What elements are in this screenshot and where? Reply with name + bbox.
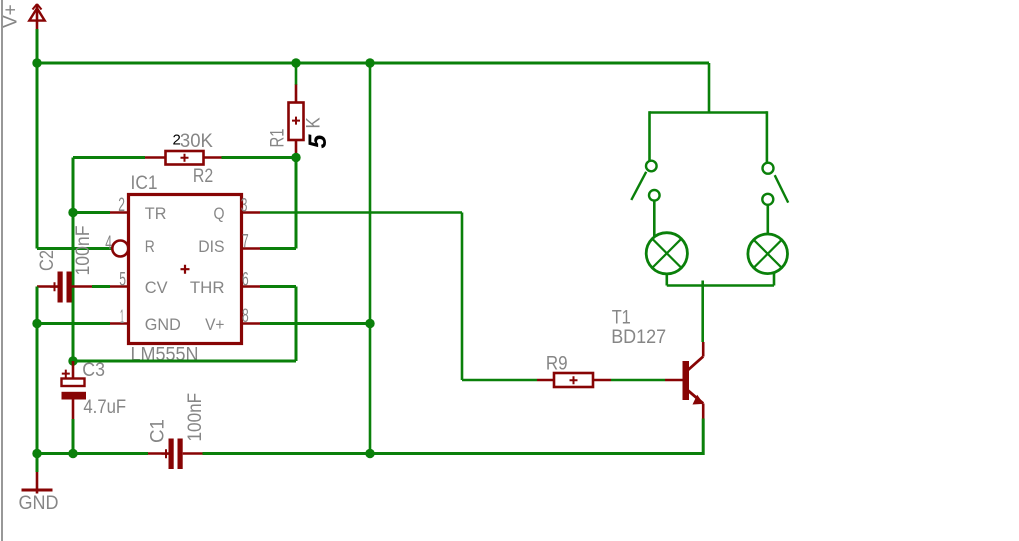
- svg-text:3: 3: [241, 196, 248, 217]
- wire left column down: [72, 213, 75, 362]
- wire junction to pin TR: [73, 211, 110, 214]
- label R9: [546, 353, 568, 374]
- pin number 3: [241, 196, 248, 217]
- node V+ rail left: [32, 58, 41, 67]
- wire ground rail right: [203, 452, 704, 455]
- wire C3 to ground rail: [72, 419, 75, 454]
- wire R2 right to R1 bottom: [222, 156, 297, 159]
- IC origin cross: [181, 265, 190, 274]
- svg-text:4: 4: [105, 233, 112, 254]
- pin number 5: [119, 270, 126, 291]
- node THR C3: [68, 356, 77, 365]
- node ground rail: [32, 449, 41, 458]
- label GND: [19, 493, 59, 514]
- node TR junction: [68, 208, 77, 217]
- wire pin8 to V+ column: [260, 322, 370, 325]
- wire V+ to top rail: [36, 29, 39, 63]
- svg-text:5: 5: [119, 270, 126, 291]
- svg-text:R1: R1: [268, 129, 289, 148]
- svg-text:C2: C2: [37, 250, 58, 271]
- wire lamps to collector: [701, 281, 704, 343]
- pin name CV: [145, 278, 168, 297]
- wire lamps common: [667, 284, 774, 287]
- node V+ column: [365, 58, 374, 67]
- svg-text:V+: V+: [1, 4, 22, 28]
- value 5K: [304, 117, 333, 148]
- wire R2 left down: [73, 158, 145, 213]
- value 100nF C2: [73, 226, 94, 276]
- ground symbol: [22, 472, 53, 494]
- pin name THR: [190, 278, 225, 297]
- label IC1: [131, 173, 158, 194]
- value 100nF C1: [185, 393, 206, 442]
- wire THR loop: [73, 287, 296, 362]
- pin number 1: [120, 307, 124, 328]
- lamp LP2: [748, 234, 788, 274]
- svg-text:7: 7: [242, 232, 249, 253]
- svg-text:IC1: IC1: [131, 173, 158, 194]
- svg-text:C1: C1: [148, 419, 169, 443]
- capacitor C3: [62, 361, 87, 419]
- wire R1 top: [295, 63, 298, 85]
- svg-text:DIS: DIS: [198, 237, 224, 256]
- svg-text:R9: R9: [546, 353, 568, 374]
- svg-text:100nF: 100nF: [185, 393, 206, 442]
- wire GND symbol lead: [36, 454, 39, 473]
- pin number 2: [118, 195, 125, 216]
- wire switch S1 to lamp LP1: [653, 201, 656, 237]
- svg-text:C3: C3: [82, 360, 105, 381]
- wire ground rail left: [37, 452, 148, 455]
- svg-text:R2: R2: [193, 166, 213, 187]
- lamp LP1: [646, 233, 687, 274]
- wire Q output: [260, 213, 537, 381]
- wire GND pin1: [37, 322, 110, 325]
- svg-text:4.7uF: 4.7uF: [83, 397, 126, 418]
- switch S2: [762, 163, 788, 205]
- capacitor C1: [148, 439, 203, 470]
- switch S1: [631, 161, 659, 201]
- label C1: [148, 419, 169, 443]
- resistor R1: [289, 85, 304, 158]
- pin number 8: [242, 306, 249, 327]
- svg-text:R: R: [145, 237, 155, 256]
- svg-text:Q: Q: [214, 204, 225, 223]
- node pin8: [365, 319, 374, 328]
- node C3 bottom: [68, 449, 77, 458]
- svg-text:CV: CV: [145, 278, 168, 297]
- svg-text:6: 6: [242, 270, 249, 291]
- svg-text:100nF: 100nF: [73, 226, 94, 276]
- node R1 bottom: [291, 153, 300, 162]
- svg-text:30K: 30K: [180, 131, 213, 152]
- value BD127: [611, 327, 666, 348]
- resistor R2: [145, 151, 222, 165]
- wire top rail to switches: [650, 63, 767, 113]
- wire to switch S2: [766, 111, 769, 162]
- svg-text:8: 8: [242, 306, 249, 327]
- wire to switch S1: [648, 111, 651, 160]
- transistor T1: [665, 342, 704, 419]
- pin 8 V+ stub: [242, 322, 261, 325]
- capacitor C2: [37, 272, 92, 303]
- wire DIS to R1 bottom: [260, 158, 296, 249]
- pin name TR: [145, 204, 167, 223]
- wire V+ rail down to reset: [36, 63, 39, 249]
- pin 5 CV stub: [110, 285, 129, 288]
- svg-text:THR: THR: [190, 278, 225, 297]
- wire lamp LP2 bottom: [773, 272, 776, 286]
- wire V+ column: [369, 63, 372, 454]
- wire to pin R: [37, 247, 112, 250]
- pin name DIS: [198, 237, 224, 256]
- wire top rail: [36, 62, 710, 65]
- label R2: [193, 166, 213, 187]
- resistor R9: [537, 373, 611, 387]
- svg-text:V+: V+: [205, 315, 224, 334]
- label R1: [268, 129, 289, 148]
- pin name R: [145, 237, 155, 256]
- pin name GND: [145, 315, 181, 334]
- wire R9 to base: [611, 379, 665, 382]
- svg-text:5: 5: [304, 134, 332, 149]
- wire C2 to pin5: [92, 285, 110, 288]
- svg-text:1: 1: [120, 307, 124, 328]
- node C1 V+ column: [365, 449, 374, 458]
- frame border line: [1, 0, 3, 541]
- pin name V+: [205, 315, 224, 334]
- pin 2 TR stub: [110, 211, 129, 214]
- value LM555N: [131, 345, 199, 366]
- wire emitter to ground rail: [702, 419, 705, 456]
- svg-text:K: K: [304, 117, 325, 128]
- svg-text:GND: GND: [19, 493, 59, 514]
- pin 6 THR stub: [242, 285, 261, 288]
- pin number 6: [242, 270, 249, 291]
- label T1: [612, 308, 631, 329]
- svg-text:GND: GND: [145, 315, 181, 334]
- wire C2 left down: [36, 287, 39, 454]
- label C3: [82, 360, 105, 381]
- wire lamp LP1 bottom: [665, 274, 668, 286]
- wire switch S2 to lamp LP2: [766, 205, 769, 235]
- supply symbol V+: [29, 4, 44, 29]
- pin 1 GND stub: [110, 322, 129, 325]
- pin number 4: [105, 233, 112, 254]
- pin name Q: [214, 204, 225, 223]
- label V+: [1, 4, 22, 28]
- pin 3 Q stub: [242, 211, 261, 214]
- value 4.7uF: [83, 397, 126, 418]
- svg-text:TR: TR: [145, 204, 167, 223]
- value 230K: [173, 131, 214, 152]
- pin 4 R bubble: [112, 241, 128, 257]
- label C2: [37, 250, 58, 271]
- node pin1 junction: [32, 319, 41, 328]
- svg-text:2: 2: [118, 195, 125, 216]
- pin 7 DIS stub: [242, 247, 261, 250]
- svg-text:BD127: BD127: [611, 327, 666, 348]
- pin number 7: [242, 232, 249, 253]
- svg-text:T1: T1: [612, 308, 631, 329]
- node R1 top: [291, 58, 300, 67]
- IC U1 body: [129, 195, 242, 344]
